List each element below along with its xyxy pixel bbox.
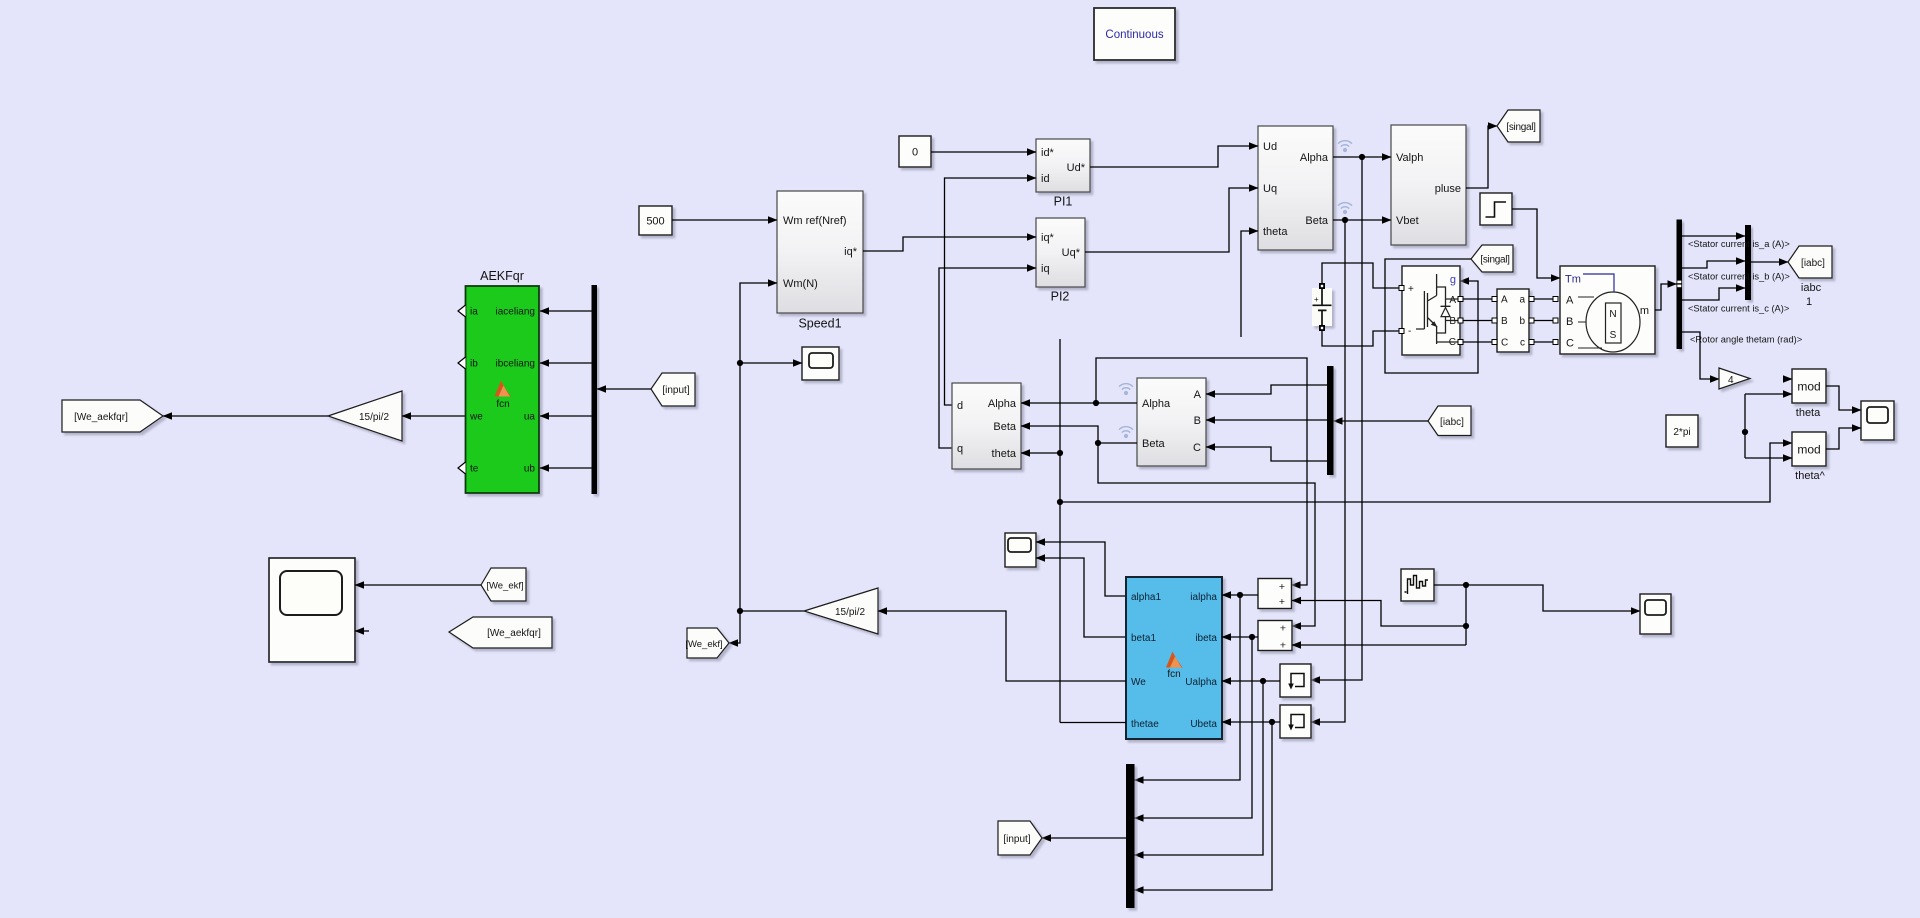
svg-text:ialpha: ialpha bbox=[1190, 592, 1217, 603]
wire SVPWM pluse to singal goto bbox=[1466, 126, 1497, 188]
subsystem AEKFqr (green MATLAB function block) bbox=[466, 286, 540, 493]
from tag [input] feeding demux bbox=[651, 373, 695, 406]
mod block theta^ bbox=[1792, 432, 1826, 466]
svg-text:theta: theta bbox=[1263, 226, 1288, 238]
wire gain1 to We_aekfqr goto bbox=[163, 415, 328, 417]
bus selector bar bbox=[1677, 220, 1683, 350]
from tag [iabc] feeding demux2 bbox=[1428, 406, 1471, 436]
wire meter b to motor B bbox=[1534, 320, 1556, 322]
svg-text:15/pi/2: 15/pi/2 bbox=[835, 607, 865, 618]
wire demux to green ub bbox=[540, 467, 592, 469]
wire park d to PI1 id feedback bbox=[945, 178, 1037, 405]
svg-text:+: + bbox=[1280, 640, 1286, 652]
wifi icon clarke alpha bbox=[1119, 384, 1133, 396]
svg-text:<Stator current is_b (A)>: <Stator current is_b (A)> bbox=[1688, 272, 1790, 282]
stub arrow scope2 second input bbox=[355, 630, 369, 632]
from tag [We_ekf] feeding scope2 bbox=[481, 568, 526, 601]
PMSM motor block bbox=[1560, 266, 1655, 354]
wire Ubeta junction down to memory2 input bbox=[1311, 220, 1345, 722]
svg-text:B: B bbox=[1566, 316, 1573, 328]
scope4 (alpha beta scope) bbox=[1005, 533, 1036, 567]
wire mod feed to mod1 in2 bbox=[1745, 393, 1792, 395]
svg-text:we: we bbox=[469, 412, 483, 423]
svg-text:ua: ua bbox=[524, 412, 536, 423]
wire demux to green ia bbox=[540, 310, 592, 312]
svg-text:A: A bbox=[1194, 389, 1202, 401]
wire noise to sum1 in2 bbox=[1292, 601, 1466, 627]
wire Ualpha junction down to memory1 input bbox=[1311, 157, 1362, 680]
svg-text:C: C bbox=[1193, 442, 1201, 454]
junction dot Wm(N) line at scope branch bbox=[737, 360, 743, 366]
sum block 1 bbox=[1258, 579, 1292, 609]
svg-text:B: B bbox=[1449, 316, 1456, 327]
svg-text:+: + bbox=[1279, 596, 1285, 608]
wire sum1 out to blue ialpha bbox=[1222, 594, 1258, 596]
wire iabc from tag to demux2 bbox=[1334, 420, 1429, 422]
gain 15/pi/2 (bottom, We estimate) bbox=[804, 588, 878, 634]
wire singal from tag to inverter gate g bbox=[1385, 259, 1478, 373]
svg-text:[input]: [input] bbox=[662, 385, 689, 396]
svg-text:id: id bbox=[1041, 173, 1050, 185]
memory block 1 bbox=[1280, 664, 1311, 697]
svg-text:+: + bbox=[1279, 581, 1285, 593]
svg-text:theta: theta bbox=[1796, 407, 1821, 419]
svg-text:N: N bbox=[1609, 309, 1616, 320]
svg-text:iq: iq bbox=[1041, 263, 1050, 275]
from tag [singal] (gate drive) bbox=[1471, 245, 1513, 272]
subsystem Speed1 bbox=[777, 191, 863, 313]
wire memory2 out to blue Ubeta bbox=[1222, 721, 1280, 723]
scope5 (theta scope) bbox=[1861, 401, 1894, 440]
wire demux2 A out to clarke A bbox=[1206, 385, 1327, 394]
svg-text:Alpha: Alpha bbox=[1300, 152, 1329, 164]
junction dot ialpha bbox=[1237, 592, 1243, 598]
wire rotor angle to gain4 bbox=[1682, 332, 1719, 379]
mux3 bar (estimator inputs) bbox=[1126, 764, 1135, 908]
wire demux2 B out to clarke B bbox=[1206, 419, 1327, 421]
junction dot Ualpha feedback bbox=[1260, 678, 1266, 684]
constant 500 bbox=[639, 206, 672, 235]
wifi icon clarke beta bbox=[1119, 427, 1133, 439]
junction dot alpha bbox=[1093, 400, 1099, 406]
svg-text:c: c bbox=[1520, 338, 1525, 349]
svg-text:0: 0 bbox=[912, 147, 918, 159]
demux bar for input signal bbox=[592, 285, 598, 494]
wire PI1 Ud* to inverse park Ud bbox=[1090, 146, 1258, 167]
junction dot at gain2 output bbox=[737, 608, 743, 614]
demux2 bar (abc) bbox=[1327, 366, 1334, 475]
svg-text:A: A bbox=[1566, 295, 1574, 307]
motor port pads bbox=[1553, 297, 1558, 345]
wire ibeta junction down to mux3 in2 bbox=[1135, 637, 1253, 818]
svg-text:pluse: pluse bbox=[1435, 183, 1461, 195]
step block (load torque) bbox=[1480, 193, 1512, 225]
svg-text:iq*: iq* bbox=[1041, 232, 1055, 244]
MATLAB function block (blue estimator model) bbox=[1126, 577, 1222, 739]
current mux bar bbox=[1745, 225, 1751, 300]
svg-text:theta^: theta^ bbox=[1795, 470, 1825, 482]
svg-text:Beta: Beta bbox=[1142, 438, 1166, 450]
svg-text:q: q bbox=[957, 443, 963, 455]
svg-text:Beta: Beta bbox=[993, 421, 1017, 433]
svg-text:Wm ref(Nref): Wm ref(Nref) bbox=[783, 215, 847, 227]
svg-text:b: b bbox=[1519, 316, 1525, 327]
wire noise junction down bbox=[1465, 585, 1467, 645]
junction dot beta bbox=[1095, 440, 1101, 446]
subsystem clarke abc to alphabeta bbox=[1137, 378, 1206, 466]
svg-text:Ud*: Ud* bbox=[1067, 162, 1086, 174]
PI controller PI1 bbox=[1036, 139, 1090, 192]
output port chevron ib bbox=[458, 357, 466, 369]
wire clarke Alpha out to park Alpha bbox=[1021, 402, 1137, 404]
noise generator block bbox=[1401, 569, 1434, 601]
goto tag [We_ekf] bbox=[685, 628, 729, 658]
svg-text:[singal]: [singal] bbox=[1480, 255, 1510, 266]
wire alpha junction up over to sum1 in1 bbox=[1096, 358, 1307, 585]
svg-text:id*: id* bbox=[1041, 147, 1055, 159]
gain 15/pi/2 (to We_aekfqr) bbox=[328, 391, 402, 441]
svg-text:ibceliang: ibceliang bbox=[496, 359, 535, 370]
svg-text:thetae: thetae bbox=[1131, 719, 1159, 730]
svg-text:+: + bbox=[1314, 295, 1319, 304]
wire bus selector is_b to mux bbox=[1682, 261, 1745, 268]
bus selector indicator marks bbox=[1677, 281, 1681, 284]
svg-text:mod: mod bbox=[1797, 380, 1820, 394]
wire motor m to bus selector bbox=[1655, 284, 1677, 310]
svg-text:[We_aekfqr]: [We_aekfqr] bbox=[74, 412, 128, 423]
svg-text:Vbet: Vbet bbox=[1396, 215, 1419, 227]
wire Ubeta junction down to mux3 in4 bbox=[1135, 722, 1273, 890]
wire blue alpha1 out to scope4 in1 bbox=[1036, 542, 1126, 596]
svg-text:500: 500 bbox=[646, 216, 664, 228]
svg-text:A: A bbox=[1449, 295, 1456, 306]
sum block 2 bbox=[1258, 621, 1292, 652]
goto tag [singal] bbox=[1497, 110, 1540, 142]
wire mux to iabc goto bbox=[1751, 261, 1788, 263]
junction dot Ubeta feedback bbox=[1269, 719, 1275, 725]
svg-text:-: - bbox=[1408, 326, 1411, 337]
wifi icon invpark alpha bbox=[1338, 141, 1352, 153]
wire DC+ to inverter + bbox=[1322, 263, 1399, 288]
svg-text:iaceliang: iaceliang bbox=[496, 307, 535, 318]
svg-text:[iabc]: [iabc] bbox=[1801, 258, 1825, 269]
svg-text:AEKFqr: AEKFqr bbox=[480, 269, 524, 283]
svg-text:Uq: Uq bbox=[1263, 183, 1277, 195]
wire demux to green ib bbox=[540, 362, 592, 364]
wire We_ekf from tag to scope2 bbox=[355, 584, 481, 586]
svg-text:Wm(N): Wm(N) bbox=[783, 278, 818, 290]
wire inverter B to meter B bbox=[1463, 320, 1492, 322]
junction dot noise2 bbox=[1463, 623, 1469, 629]
wire noise to sum2 in2 bbox=[1292, 644, 1466, 646]
svg-text:S: S bbox=[1610, 330, 1617, 341]
junction dot thetae-theta bbox=[1057, 450, 1063, 456]
svg-text:Ualpha: Ualpha bbox=[1185, 677, 1217, 688]
svg-text:C: C bbox=[1566, 338, 1574, 350]
wire ialpha junction down to mux3 in1 bbox=[1135, 595, 1241, 780]
meter port pads bbox=[1492, 297, 1534, 345]
wire blue We output to gain2 bbox=[878, 611, 1126, 681]
scope3 (current scope) bbox=[1640, 594, 1671, 634]
subsystem SVPWM (Valph Vbet to pluse) bbox=[1391, 125, 1466, 245]
svg-text:te: te bbox=[470, 464, 479, 475]
wire gain2 output to junction up to Speed1 Wm(N) bbox=[740, 283, 804, 611]
wire clarke Beta out to junction bbox=[1098, 442, 1137, 444]
svg-text:fcn: fcn bbox=[496, 399, 509, 410]
wire memory1 out to blue Ualpha bbox=[1222, 680, 1280, 682]
svg-text:ia: ia bbox=[470, 307, 478, 318]
svg-text:Ud: Ud bbox=[1263, 141, 1277, 153]
svg-text:C: C bbox=[1501, 338, 1508, 349]
junction dot noise1 bbox=[1463, 582, 1469, 588]
svg-text:m: m bbox=[1640, 305, 1649, 317]
junction dot thetae long branch bbox=[1057, 499, 1063, 505]
junction dot Ualpha bbox=[1359, 154, 1365, 160]
gain 4 bbox=[1719, 368, 1750, 389]
wire beta junction down right down to sum2 in1 bbox=[1098, 443, 1315, 626]
wire noise out to scope3 bbox=[1434, 585, 1640, 611]
inverter port pads bbox=[1399, 286, 1463, 345]
svg-text:Alpha: Alpha bbox=[1142, 398, 1171, 410]
output port chevron ia bbox=[458, 305, 466, 317]
wire invpark Alpha to SVPWM Valph bbox=[1333, 156, 1391, 158]
svg-text:[input]: [input] bbox=[1003, 834, 1030, 845]
inverter block (universal bridge) bbox=[1402, 266, 1460, 355]
wire mux3 out to input goto bbox=[1042, 837, 1126, 839]
svg-text:alpha1: alpha1 bbox=[1131, 592, 1161, 603]
wifi icon invpark beta bbox=[1338, 203, 1352, 215]
svg-text:4: 4 bbox=[1728, 375, 1734, 386]
svg-text:fcn: fcn bbox=[1167, 669, 1180, 680]
wire thetae vertical trunk bbox=[1059, 339, 1061, 723]
svg-text:A: A bbox=[1501, 295, 1508, 306]
DC voltage source bbox=[1312, 288, 1332, 326]
wire blue beta1 out to scope4 in2 bbox=[1036, 558, 1126, 637]
from tag [We_aekfqr] (unconnected) bbox=[449, 617, 552, 648]
scope1 (speed scope) bbox=[802, 347, 839, 380]
wire mod2 to scope5 in2 bbox=[1826, 428, 1861, 449]
subsystem park transform (dq outputs) bbox=[952, 383, 1021, 469]
svg-text:<Stator current is_c (A)>: <Stator current is_c (A)> bbox=[1688, 304, 1789, 314]
wire meter a to motor A bbox=[1534, 298, 1556, 300]
wire thetae branch to park theta bbox=[1021, 452, 1060, 454]
wire demux2 C out to clarke C bbox=[1206, 447, 1327, 461]
svg-text:Uq*: Uq* bbox=[1062, 247, 1081, 259]
svg-text:15/pi/2: 15/pi/2 bbox=[359, 412, 389, 423]
wire blue thetae output to vertical trunk bbox=[1060, 722, 1126, 724]
svg-text:Continuous: Continuous bbox=[1105, 29, 1163, 41]
mod block theta bbox=[1792, 369, 1826, 403]
scope2 (large We scope) bbox=[269, 558, 355, 662]
wire demux to green ua bbox=[540, 415, 592, 417]
constant 0 bbox=[899, 136, 931, 167]
goto tag [We_aekfqr] bbox=[62, 400, 163, 432]
svg-text:Valph: Valph bbox=[1396, 152, 1423, 164]
svg-text:iq*: iq* bbox=[844, 246, 858, 258]
svg-text:ub: ub bbox=[524, 464, 536, 475]
wire inverter C to meter C bbox=[1463, 341, 1492, 343]
svg-text:a: a bbox=[1519, 295, 1525, 306]
wire green we output to gain1 bbox=[402, 415, 466, 417]
svg-text:B: B bbox=[1194, 415, 1201, 427]
wire Speed1 iq* to PI2 iq* bbox=[863, 237, 1036, 251]
svg-text:Speed1: Speed1 bbox=[798, 317, 841, 331]
svg-text:<Rotor angle thetam (rad)>: <Rotor angle thetam (rad)> bbox=[1690, 335, 1802, 345]
svg-text:iabc: iabc bbox=[1801, 282, 1822, 294]
svg-text:1: 1 bbox=[1806, 296, 1812, 308]
wire mod feed vertical (dangling) bbox=[1744, 394, 1746, 458]
wire Ualpha junction down to mux3 in3 bbox=[1135, 681, 1264, 855]
svg-text:[iabc]: [iabc] bbox=[1440, 417, 1464, 428]
wire junction to scope1 bbox=[740, 362, 802, 364]
junction dot ibeta bbox=[1249, 634, 1255, 640]
svg-text:Alpha: Alpha bbox=[988, 398, 1017, 410]
svg-text:theta: theta bbox=[992, 448, 1017, 460]
goto tag [input] bbox=[998, 821, 1042, 855]
wire constant 0 to PI1 id* bbox=[931, 151, 1036, 153]
subsystem inverse park (Ud Uq theta to Alpha Beta) bbox=[1258, 126, 1333, 250]
wire junction down to We_ekf goto bbox=[729, 611, 740, 643]
PI controller PI2 bbox=[1036, 218, 1085, 287]
wire beta junction jog to park Beta bbox=[1021, 426, 1098, 443]
wire theta feed to inverse park (dangling lower end) bbox=[1241, 231, 1258, 337]
powergui block Continuous bbox=[1094, 8, 1175, 60]
svg-text:[We_ekf]: [We_ekf] bbox=[685, 639, 722, 650]
svg-text:Tm: Tm bbox=[1565, 274, 1581, 286]
memory block 2 bbox=[1280, 705, 1311, 738]
svg-text:<Stator current is_a (A)>: <Stator current is_a (A)> bbox=[1688, 239, 1790, 249]
svg-text:PI2: PI2 bbox=[1051, 290, 1070, 304]
svg-text:ibeta: ibeta bbox=[1195, 633, 1217, 644]
svg-text:Beta: Beta bbox=[1305, 215, 1329, 227]
three-phase VI measurement block bbox=[1497, 289, 1529, 352]
svg-text:We: We bbox=[1131, 677, 1146, 688]
svg-text:[singal]: [singal] bbox=[1506, 122, 1536, 133]
wire inverter A to meter A bbox=[1463, 298, 1492, 300]
wire sum2 out to blue ibeta bbox=[1222, 636, 1258, 638]
svg-text:+: + bbox=[1280, 623, 1286, 635]
junction dot Ubeta bbox=[1342, 217, 1348, 223]
svg-text:ib: ib bbox=[470, 359, 478, 370]
svg-text:+: + bbox=[1408, 284, 1414, 295]
wire invpark Beta to SVPWM Vbet bbox=[1333, 219, 1391, 221]
svg-text:Ubeta: Ubeta bbox=[1190, 719, 1217, 730]
svg-text:beta1: beta1 bbox=[1131, 633, 1156, 644]
svg-text:mod: mod bbox=[1797, 443, 1820, 457]
wire meter c to motor C bbox=[1534, 341, 1556, 343]
stub arrow mod1 in1 bbox=[1785, 378, 1792, 380]
wire bus selector is_a to mux bbox=[1682, 235, 1745, 237]
junction dot mod feed bbox=[1742, 429, 1748, 435]
wire [input] from tag to demux bbox=[597, 388, 651, 390]
goto tag [iabc] bbox=[1788, 246, 1832, 278]
wire step to motor Tm bbox=[1512, 209, 1560, 278]
wire bus selector is_c to mux bbox=[1682, 288, 1745, 300]
wire constant 500 to Speed1 bbox=[672, 219, 777, 221]
svg-text:B: B bbox=[1501, 316, 1508, 327]
svg-text:[We_ekf]: [We_ekf] bbox=[486, 581, 523, 592]
wire park q to PI2 iq feedback bbox=[939, 268, 1036, 448]
wire thetae branch long to mod2 in1 bbox=[1060, 443, 1792, 502]
wire mod1 to scope5 in1 bbox=[1826, 386, 1861, 410]
svg-text:[We_aekfqr]: [We_aekfqr] bbox=[487, 628, 541, 639]
svg-text:2*pi: 2*pi bbox=[1673, 427, 1690, 438]
output port chevron te bbox=[458, 462, 466, 474]
svg-text:d: d bbox=[957, 400, 963, 412]
wire mod feed to mod2 in2 bbox=[1745, 457, 1792, 459]
wire DC- to inverter - bbox=[1322, 330, 1399, 346]
wire PI2 Uq* to inverse park Uq bbox=[1085, 188, 1258, 252]
svg-text:PI1: PI1 bbox=[1054, 195, 1073, 209]
constant 2*pi bbox=[1666, 415, 1698, 447]
svg-text:g: g bbox=[1450, 274, 1456, 286]
